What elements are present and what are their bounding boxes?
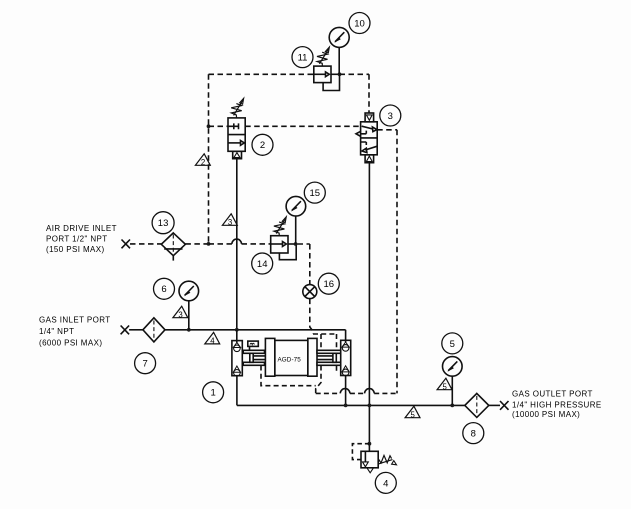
label circle 5 [442,333,463,354]
node: junction gas inlet / valve2 line [235,328,239,332]
node: air inlet port marker X [122,240,131,249]
label circle 16 [318,273,339,294]
wire: dashed from valve 16 down to booster pilot box [310,299,314,334]
wire: valve 3 output line down to relief valve [368,163,370,452]
svg-text:(6000 PSI MAX): (6000 PSI MAX) [39,339,102,348]
tag triangle 5 at gauge 5 [437,378,452,391]
relief valve 4 [361,451,397,473]
svg-text:1/4" HIGH PRESSURE: 1/4" HIGH PRESSURE [512,401,602,410]
svg-text:10: 10 [354,18,365,29]
wire: air inlet dashed line X to filter 13 [130,243,161,245]
node: junction regulator 11 outlet / gauge 10 [338,72,342,76]
svg-text:8: 8 [471,429,476,440]
wire: regulator 11 outlet to junction [331,73,340,75]
label circle 7 [135,353,156,374]
node: junction outlet line / valve 3 line [368,404,372,408]
regulator 14 [271,217,288,253]
wire: outlet line diamond to port X [489,404,500,406]
node: junction regulator 14 outlet / gauge 15 [294,242,298,246]
label circle 4 [375,472,396,493]
tag triangle 3 lower [173,306,188,319]
gauge G5 [443,357,463,406]
text: gas inlet label [39,316,111,348]
svg-text:2: 2 [201,158,205,167]
wire: dashed from junction to valve 16 [298,244,310,285]
wire: valve2 dashed row left [209,125,229,127]
svg-text:4: 4 [210,337,215,346]
wire: gas inlet line filter to right housing [165,330,346,342]
wire: hop over valve2 gas line [232,239,242,244]
label circle 15 [304,182,325,203]
gauge G6 [179,281,199,330]
wire: valve 2 output line down [236,159,238,330]
svg-text:5: 5 [450,339,455,350]
wire: right housing bottom to outlet line [345,376,347,406]
node: junction outlet line / right housing [344,404,348,408]
svg-text:3: 3 [228,218,232,227]
node: junction relief valve pilot [368,442,372,446]
svg-text:16: 16 [324,279,335,290]
svg-text:1/4" NPT: 1/4" NPT [39,327,74,336]
wire: air dashed line hop to regulator 14 [242,243,271,245]
wire: gas inlet line to filter 7 [129,329,143,331]
wire: left housing down to gas outlet line [237,330,465,406]
valve 16 circle-X vent [303,285,317,299]
label circle 10 [349,13,370,34]
wire: top dashed line to regulator 11 [209,73,314,75]
svg-text:1: 1 [210,388,215,399]
node: gas outlet port marker X [500,401,509,410]
label circle 3 [380,105,401,126]
node: junction outlet line / gauge 5 [450,404,454,408]
wire: valve2 dashed row right to valve 3 [245,125,360,127]
right check valve housing [341,340,351,375]
svg-text:4: 4 [383,478,388,489]
filter F8 diamond at outlet [465,393,489,417]
svg-text:GAS INLET PORT: GAS INLET PORT [39,316,111,325]
svg-text:AIR DRIVE INLET: AIR DRIVE INLET [46,224,117,233]
wire: regulator 14 outlet [288,243,296,245]
svg-text:3: 3 [388,111,393,122]
wire: dashed inner U under cylinder [261,366,316,386]
wire: relief valve pilot dashed loop [352,444,369,460]
svg-text:7: 7 [142,359,147,370]
label circle 13 [152,212,174,234]
text: air drive inlet label [46,224,117,254]
wire: regulator 14 vent loop [279,244,296,260]
regulator 11 [314,47,331,83]
label circle 14 [252,253,273,274]
svg-text:14: 14 [257,259,268,270]
label circle 1 [203,382,224,403]
wire: valve 3 right port dashed to right pilot rail [377,130,397,394]
svg-text:3: 3 [178,310,182,319]
gauge G10 [329,27,349,74]
svg-text:5: 5 [411,410,416,419]
gauge G15 [286,196,306,244]
text: gas outlet label [512,390,602,420]
left check valve housing [232,341,242,377]
svg-text:(10000 PSI MAX): (10000 PSI MAX) [512,410,580,419]
svg-text:GAS OUTLET PORT: GAS OUTLET PORT [512,390,593,399]
svg-text:AGD-75: AGD-75 [278,356,302,363]
tag triangle 4 [205,332,220,345]
svg-text:(150 PSI MAX): (150 PSI MAX) [46,245,105,254]
filter F7 diamond [143,318,165,342]
node: gas inlet port marker X [121,326,130,335]
wire: left vertical dashed pilot line [208,74,210,244]
left mounting plates and rods [243,350,265,365]
node: junction air line / left pilot riser [207,242,211,246]
svg-text:5: 5 [443,382,448,391]
label circle 11 [292,47,313,68]
filter F13 diamond [161,233,185,261]
svg-text:2: 2 [260,140,265,151]
wire: regulator 11 vent loop [323,74,339,90]
wire: top dashed line junction to valve 3 pilot [340,74,370,113]
tag triangle 3 upper [222,214,237,227]
label circle 6 [154,278,175,299]
small gauge port box on cylinder [248,341,258,350]
tag triangle 5 below outlet line [405,406,420,419]
wire: dashed pilot box around right cap [313,334,337,393]
wire: dashed bottom pilot rail with hops [316,389,397,394]
node: junction left pilot line / valve2 row [207,124,211,128]
label circle 2 [252,134,273,155]
svg-text:PORT 1/2" NPT: PORT 1/2" NPT [46,235,108,244]
air cylinder AGD-75 [265,338,317,376]
svg-text:13: 13 [158,218,169,229]
node: junction gas inlet / gauge 6 [187,328,191,332]
right mounting plates and rods [317,350,341,365]
label circle 8 [463,423,484,444]
svg-text:6: 6 [161,284,166,295]
valve 3 body [356,113,377,163]
svg-text:11: 11 [298,53,308,64]
tag triangle 2 [195,154,210,167]
svg-text:15: 15 [310,188,321,199]
wire: air dashed line filter 13 to junction [185,243,208,245]
valve 2 body [228,98,245,159]
wire: air dashed line junction to hop [209,243,232,245]
